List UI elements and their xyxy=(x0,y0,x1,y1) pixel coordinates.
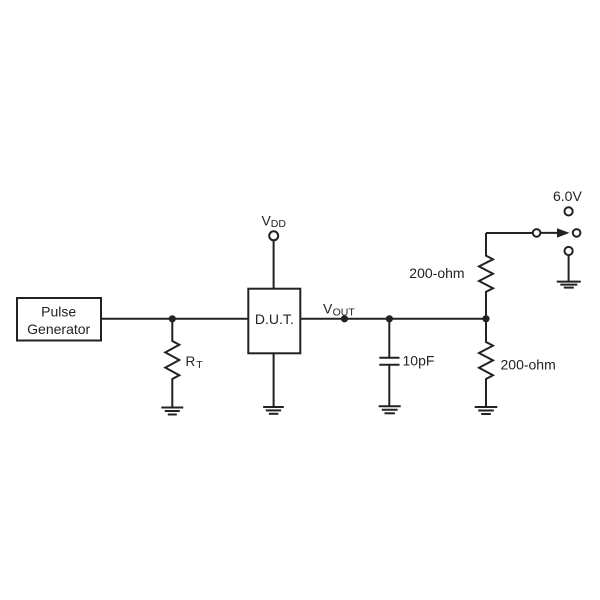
Pulse Generator box xyxy=(17,298,101,341)
VDD terminal circle xyxy=(269,231,278,240)
resistor RT xyxy=(165,319,179,407)
ground (below R2) xyxy=(475,407,498,414)
svg-text:Pulse: Pulse xyxy=(41,303,76,319)
wire: D.U.T. bottom to ground xyxy=(273,353,275,406)
svg-text:Generator: Generator xyxy=(27,321,90,337)
svg-text:D.U.T.: D.U.T. xyxy=(255,311,294,327)
wire: VOUT from D.U.T. right to resistor junction xyxy=(300,318,486,320)
wire: bottom throw to ground xyxy=(568,255,570,281)
D.U.T. box U1 xyxy=(248,289,300,354)
6.0V terminal circle (top throw) xyxy=(565,207,573,215)
ground (below RT) xyxy=(161,408,183,415)
svg-text:T: T xyxy=(196,359,203,371)
svg-text:6.0V: 6.0V xyxy=(553,188,582,204)
svg-text:200-ohm: 200-ohm xyxy=(501,357,556,373)
capacitor C1 10pF xyxy=(379,319,399,406)
node: junction dot at capacitor xyxy=(386,315,393,322)
resistor R2 200-ohm (lower) xyxy=(479,319,493,406)
wire: top of R1 to switch pole xyxy=(486,232,533,234)
switch wiper line xyxy=(540,232,558,234)
wire: VDD terminal to D.U.T. top xyxy=(273,240,275,289)
svg-text:OUT: OUT xyxy=(333,306,356,318)
ground (below capacitor) xyxy=(379,406,401,413)
resistor R1 200-ohm (upper) xyxy=(479,233,493,319)
node: junction dot at RT xyxy=(169,315,176,322)
svg-text:R: R xyxy=(186,354,196,369)
ground (switch, right) xyxy=(557,282,581,288)
svg-text:DD: DD xyxy=(271,218,287,230)
svg-text:V: V xyxy=(323,301,333,317)
ground terminal circle (bottom throw) xyxy=(565,247,573,255)
ground (below D.U.T.) xyxy=(263,407,284,414)
node: junction dot at divider xyxy=(482,315,489,322)
switch arrow head xyxy=(557,228,570,237)
node VOUT dot xyxy=(341,315,348,322)
svg-text:200-ohm: 200-ohm xyxy=(409,265,464,281)
switch SW1 pole circle xyxy=(533,229,541,237)
switch throw circle (common, right) xyxy=(573,229,581,237)
svg-text:10pF: 10pF xyxy=(403,353,435,369)
wire: pulse generator output to D.U.T. input xyxy=(101,318,248,320)
